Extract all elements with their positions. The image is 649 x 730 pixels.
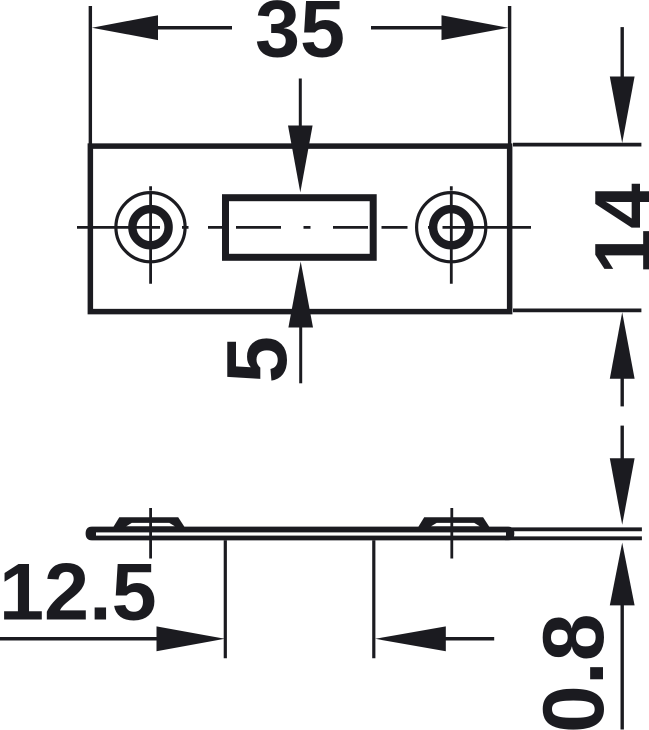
left hole vertical centerline (149, 186, 152, 283)
right hole countersink circle (417, 193, 486, 262)
horizontal centerline (dash-dot) (77, 226, 531, 229)
dim 12.5 right arrowhead (left-pointing) (375, 626, 446, 651)
side view left screw centerline (149, 508, 152, 559)
side view bottom surface extension line (505, 536, 642, 540)
dim 35 left arrowhead (92, 15, 158, 40)
svg-text:12.5: 12.5 (0, 548, 157, 638)
top view plate outline (90, 146, 509, 312)
dim 14 upper stem (621, 27, 624, 77)
side view left screw boss (bump) (112, 517, 187, 530)
side view right screw centerline (450, 508, 453, 559)
svg-text:0.8: 0.8 (526, 613, 622, 730)
side view top surface extension line (505, 527, 642, 531)
dim 14 bottom extension line (513, 308, 641, 312)
dim 14 upper arrowhead (down) (610, 77, 635, 144)
dim 14 top extension line (513, 143, 641, 147)
dim 14 lower arrowhead (up) (610, 312, 635, 379)
dim 14 lower stem (621, 378, 624, 406)
svg-text:5: 5 (210, 336, 305, 383)
dim 0.8 lower arrowhead (up) (610, 543, 635, 606)
right hole vertical centerline (450, 186, 453, 283)
dim 12.5 left extension line (224, 541, 227, 659)
dim 35 left extension line (89, 6, 92, 144)
side view plate body (86, 527, 515, 541)
dim 12.5 right dimension line (445, 637, 494, 641)
svg-text:14: 14 (579, 183, 649, 275)
dim 35 right arrowhead (442, 15, 509, 40)
slot rectangle (226, 198, 374, 258)
left hole bore ring (132, 209, 168, 245)
dim 5 lower leader stem (299, 327, 302, 383)
dim 12.5 right extension line (372, 541, 375, 659)
dim 35 dimension line (157, 26, 442, 30)
side view plate inner white stripe (96, 532, 506, 535)
left hole countersink circle (116, 193, 185, 262)
dim 0.8 upper arrowhead (down) (610, 458, 635, 525)
dim 5 upper leader stem (299, 79, 302, 127)
side view left boss white wedge (126, 523, 175, 526)
dim 5 upper arrowhead (down) (288, 126, 313, 193)
side view right screw boss (bump) (416, 517, 491, 530)
right hole bore ring (433, 209, 469, 245)
svg-text:35: 35 (255, 0, 345, 75)
dim 0.8 lower stem (621, 605, 624, 730)
dim 12.5 left arrowhead (right-pointing) (157, 626, 225, 651)
dim 12.5 left dimension line (0, 637, 157, 641)
dim 5 lower arrowhead (up) (288, 262, 313, 328)
side view right boss white wedge (431, 523, 480, 526)
dim 35 right extension line (508, 6, 511, 144)
dim 0.8 upper stem (621, 426, 624, 459)
